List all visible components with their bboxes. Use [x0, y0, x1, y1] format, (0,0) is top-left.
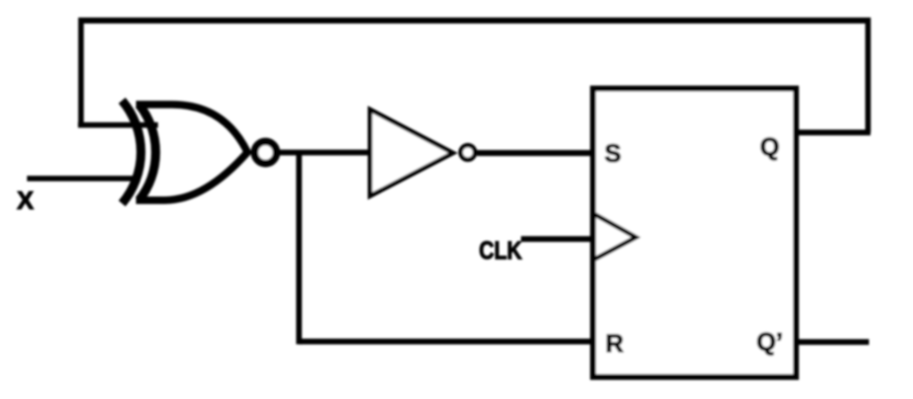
- svg-text:CLK: CLK: [479, 237, 522, 265]
- wire: Q' output: [796, 339, 869, 345]
- svg-text:X: X: [17, 187, 34, 215]
- svg-text:S: S: [605, 140, 622, 168]
- wire: feedback right vertical: [865, 18, 871, 133]
- wire: top feedback horizontal: [81, 18, 868, 24]
- wire: bottom horizontal to R input: [299, 339, 593, 345]
- wire: XNOR top input horizontal: [78, 122, 158, 128]
- inverter U2: output bubble: [461, 145, 475, 159]
- flip-flop U3: clock edge triangle: [595, 215, 636, 260]
- svg-text:Q’: Q’: [757, 329, 783, 357]
- svg-text:R: R: [606, 330, 624, 358]
- wire: XNOR output to inverter input: [280, 150, 371, 156]
- flip-flop U3: body rectangle: [593, 89, 796, 378]
- wire: branch vertical to R: [296, 153, 302, 345]
- wire: feedback left vertical: [78, 18, 84, 126]
- wire: CLK input: [521, 236, 593, 242]
- xnor gate U1: body outline: [136, 105, 248, 201]
- wire: inverter output to S input: [477, 150, 593, 156]
- xnor gate U1: extra input arc: [122, 101, 141, 204]
- xnor gate U1: output bubble: [255, 142, 277, 164]
- svg-text:Q: Q: [760, 134, 779, 162]
- wire: X input: [27, 176, 140, 182]
- wire: Q output to feedback: [796, 130, 871, 136]
- xnor gate U1: body: [139, 105, 156, 201]
- inverter U2: triangle: [370, 110, 453, 197]
